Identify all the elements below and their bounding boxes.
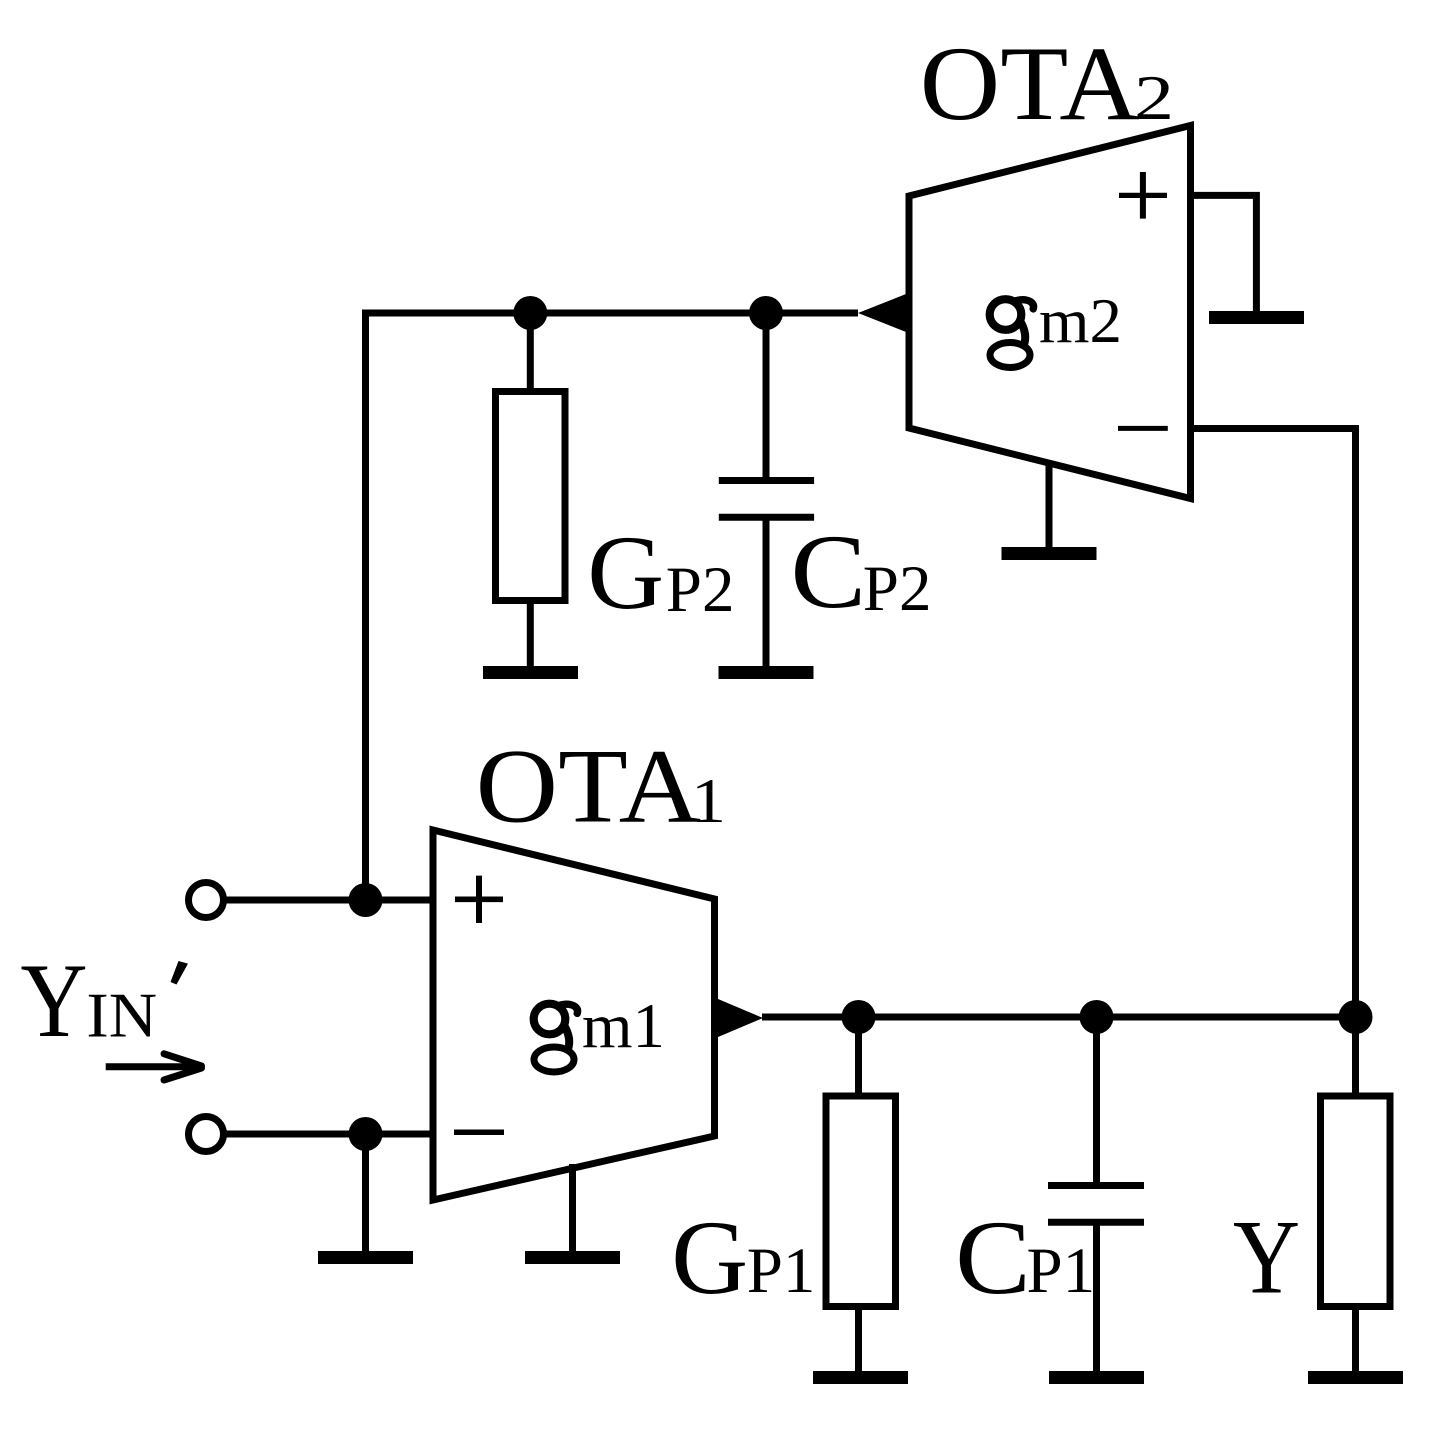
svg-text:OTA: OTA bbox=[920, 25, 1140, 143]
label gm1 bbox=[534, 991, 665, 1072]
wire: OTA1 bottom terminal to ground bbox=[569, 1164, 576, 1253]
svg-text:Y: Y bbox=[21, 942, 88, 1060]
junction: GP2 node bbox=[513, 296, 547, 330]
ground: CP2 bbox=[719, 666, 814, 679]
junction: feedback / + input node bbox=[349, 883, 383, 917]
svg-text:2: 2 bbox=[1134, 63, 1174, 133]
ground: CP1 bbox=[1049, 1371, 1144, 1384]
junction: GP1 node bbox=[842, 1000, 876, 1034]
capacitor CP1 bottom plate bbox=[1048, 1219, 1144, 1226]
svg-text:Y: Y bbox=[1233, 1199, 1300, 1317]
wire: CP1 bottom lead bbox=[1093, 1222, 1100, 1373]
OTA2 - input pin mark bbox=[1118, 426, 1168, 431]
svg-text:C: C bbox=[791, 513, 867, 631]
OTA1 output arrow bbox=[715, 998, 764, 1039]
svg-text:G: G bbox=[671, 1199, 748, 1317]
svg-text:C: C bbox=[955, 1199, 1031, 1317]
wire: GP2 top lead bbox=[527, 313, 534, 392]
label gm2 bbox=[990, 286, 1122, 368]
ground: OTA1 bottom bbox=[525, 1251, 620, 1264]
input terminal - (circle) bbox=[189, 1117, 224, 1152]
OTA1 + input pin mark bbox=[455, 876, 503, 923]
ground: - input node bbox=[318, 1251, 413, 1264]
label OTA1 bbox=[476, 728, 726, 846]
junction: - input node bbox=[349, 1117, 383, 1151]
ground: GP1 bbox=[813, 1371, 908, 1384]
wire: OTA2 + input to ground bbox=[1191, 195, 1257, 313]
capacitor CP2 bottom plate bbox=[719, 514, 814, 521]
resistor Y bbox=[1321, 1096, 1391, 1307]
junction: Y node bbox=[1339, 1000, 1373, 1034]
ground: OTA2 + input bbox=[1209, 311, 1304, 324]
svg-text:P1: P1 bbox=[747, 1235, 816, 1307]
wire: Y bottom lead bbox=[1352, 1307, 1359, 1374]
wire: OTA2 bottom terminal to ground bbox=[1046, 461, 1053, 549]
wire: Y node vertical feedback to OTA2 - input bbox=[1191, 429, 1356, 1018]
label YIN' input admittance bbox=[21, 942, 189, 1060]
ground: OTA2 bottom bbox=[1002, 547, 1097, 560]
wire: output node V1 horizontal bbox=[762, 1014, 1356, 1021]
label Y bbox=[1233, 1199, 1300, 1317]
svg-text:P2: P2 bbox=[666, 554, 735, 626]
svg-text:m2: m2 bbox=[1039, 286, 1122, 356]
label OTA2 bbox=[920, 25, 1174, 143]
label GP1 bbox=[671, 1199, 815, 1317]
capacitor CP1 top plate bbox=[1048, 1182, 1144, 1189]
wire: GP1 top lead bbox=[855, 1017, 862, 1096]
junction: CP1 node bbox=[1080, 1000, 1114, 1034]
label CP1 bbox=[955, 1199, 1095, 1317]
op-amp OTA2 body bbox=[909, 126, 1191, 499]
svg-text:1: 1 bbox=[691, 766, 726, 836]
OTA2 output arrow bbox=[858, 294, 906, 332]
svg-text:P1: P1 bbox=[1027, 1235, 1096, 1307]
OTA2 + input pin mark bbox=[1119, 172, 1167, 219]
wire: OTA1 + input from terminal bbox=[220, 897, 433, 904]
resistor GP1 bbox=[826, 1096, 896, 1307]
op-amp OTA1 body bbox=[433, 830, 715, 1200]
wire: CP2 bottom lead bbox=[763, 517, 770, 668]
svg-text:G: G bbox=[587, 514, 664, 632]
input arrow bbox=[106, 1054, 202, 1080]
svg-text:m1: m1 bbox=[582, 991, 665, 1061]
wire: GP1 bottom lead bbox=[855, 1307, 862, 1374]
svg-text:IN: IN bbox=[86, 981, 157, 1051]
wire: CP2 top lead bbox=[763, 313, 770, 481]
wire: - input node to ground bbox=[362, 1134, 369, 1253]
svg-text:OTA: OTA bbox=[476, 728, 702, 846]
resistor GP2 bbox=[496, 392, 566, 601]
capacitor CP2 top plate bbox=[719, 477, 814, 484]
wire: feedback net from OTA2 output node V2 down-left to OTA1 + input bbox=[366, 313, 859, 900]
wire: OTA1 - input from terminal bbox=[220, 1131, 433, 1138]
label CP2 bbox=[791, 513, 932, 631]
wire: CP1 top lead bbox=[1093, 1017, 1100, 1183]
svg-text:P2: P2 bbox=[863, 553, 932, 625]
ground: GP2 bbox=[483, 666, 578, 679]
input terminal + (circle) bbox=[189, 883, 224, 918]
junction: CP2 node bbox=[749, 296, 783, 330]
label GP2 bbox=[587, 514, 734, 632]
wire: Y top lead bbox=[1352, 1017, 1359, 1096]
wire: GP2 bottom lead bbox=[527, 601, 534, 669]
OTA1 - input pin mark bbox=[454, 1130, 504, 1136]
ground: Y bbox=[1308, 1371, 1403, 1384]
